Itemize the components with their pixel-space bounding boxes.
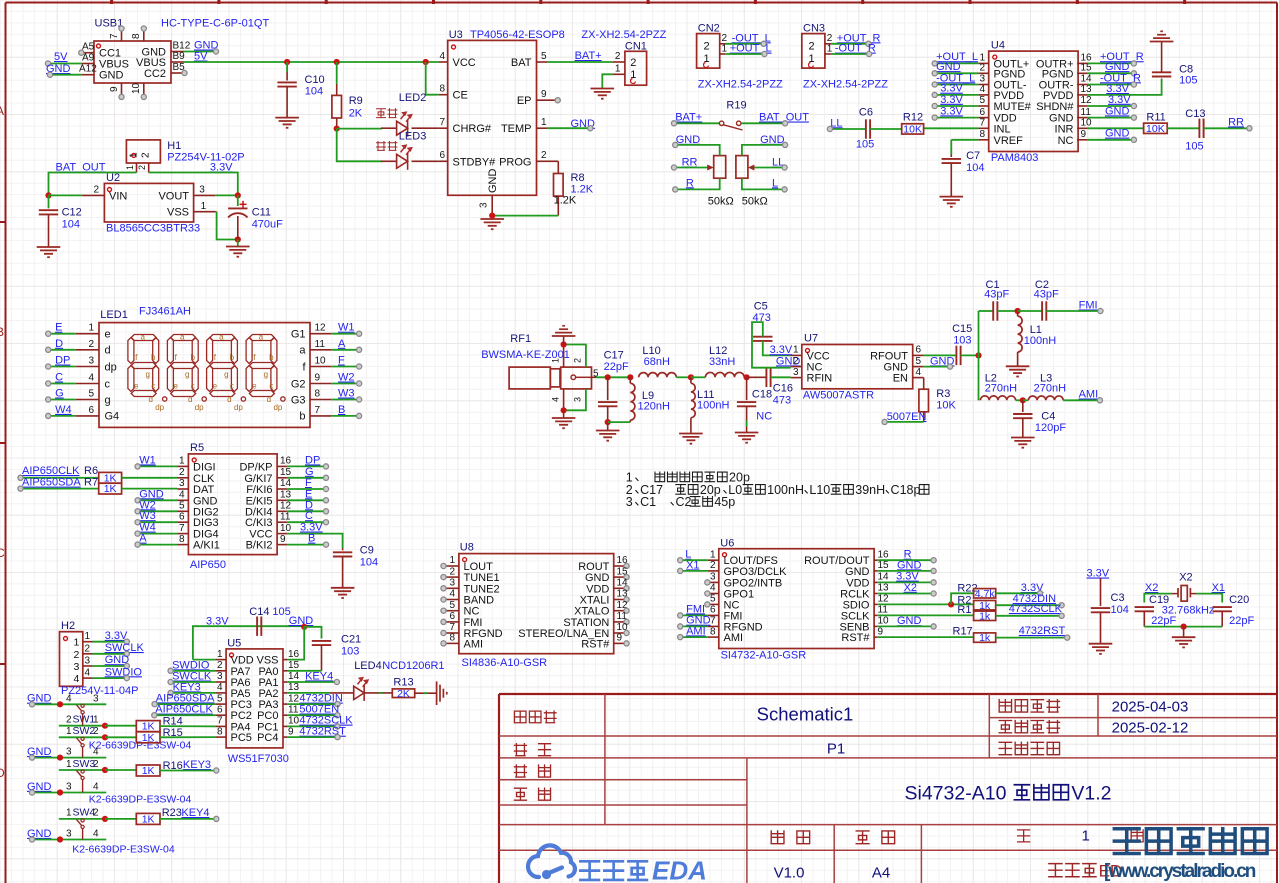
svg-text:B/KI2: B/KI2 [246,540,273,552]
svg-text:7: 7 [710,616,716,627]
USB1 bottom pins 9 10 [121,83,123,97]
wire DP from R5 [287,465,326,467]
wire +OUT_L [726,53,765,55]
wire U3 CE tie to VCC [423,59,429,65]
svg-text:B: B [0,325,4,339]
svg-text:CN3: CN3 [803,23,825,35]
U3 GND pin 3 bottom [491,195,493,215]
RF1 shield pins 1 2 to top ground [563,345,565,368]
svg-text:A: A [139,533,147,545]
LED1 digit 4 [246,335,277,397]
wire 5007EN from U5 pin11 [288,714,338,716]
wire U4 pin13 to C8 [1088,79,1162,95]
svg-text:3.3V: 3.3V [770,344,793,356]
svg-text:4: 4 [93,782,99,793]
svg-text:7: 7 [179,523,185,534]
svg-text:W1: W1 [139,454,156,466]
svg-text:g: g [264,370,268,379]
wire D to LED1 [48,349,76,351]
svg-text:4: 4 [93,747,99,758]
svg-text:103: 103 [341,646,359,658]
title cell label material code [999,742,1059,754]
svg-text:PA7: PA7 [231,666,251,678]
svg-text:R7: R7 [84,477,98,489]
svg-text:6: 6 [179,511,185,522]
svg-text:R9: R9 [349,95,363,107]
wire U4 pin14 [1088,84,1134,86]
wire BAT_OUT from H1 pin1 [49,173,137,196]
U8 pin 2 dot [441,575,446,580]
wire 4732SCLK from U5 pin10 [288,725,338,727]
svg-text:K2-6639DP-E3SW-04: K2-6639DP-E3SW-04 [72,844,175,856]
svg-text:4: 4 [449,589,455,600]
svg-text:1: 1 [827,43,833,54]
svg-text:2: 2 [630,57,636,69]
svg-text:SWDIO: SWDIO [172,659,210,671]
capacitor C7 104 [950,155,952,158]
wire GND to R5 pin4 [138,499,178,501]
title cell label sheet-name [514,711,556,723]
svg-text:SW3: SW3 [73,758,96,770]
svg-text:U3: U3 [449,29,463,41]
svg-text:2: 2 [85,643,91,654]
svg-text:W1: W1 [338,322,355,334]
U8 pin 14 dot [624,586,629,591]
LED2 red charge LED [397,120,408,137]
svg-text:104: 104 [966,162,984,174]
svg-text:C18p: C18p [891,483,921,497]
svg-text:c: c [269,382,273,391]
svg-text:SWDIO: SWDIO [105,666,143,678]
wire R11 to C13 [1167,127,1199,129]
svg-text:GND: GND [845,566,870,578]
svg-text:13: 13 [288,682,300,693]
svg-text:U7: U7 [804,333,818,345]
LED1 digit 2 [167,335,198,397]
junction SDIO R22 [948,601,954,607]
svg-text:LED1: LED1 [100,309,128,321]
wire U5 pin13 to LED4 [288,692,330,694]
svg-text:3: 3 [66,829,72,840]
capacitor C12 104 [48,207,50,209]
U8 pin 16 dot [624,563,629,568]
svg-text:104: 104 [360,557,378,569]
svg-text:4: 4 [66,693,72,704]
svg-text:e: e [173,382,178,391]
U8 pin 8 dot [441,641,446,646]
svg-text:RST#: RST# [581,638,610,650]
junction L2 L3 C4 [1016,399,1023,401]
wire E to LED1 [48,333,76,335]
svg-text:6: 6 [916,345,922,356]
svg-text:C15: C15 [952,323,972,335]
charger U3 TP4056-42-ESOP8 [448,40,537,195]
svg-text:INR: INR [1055,123,1074,135]
svg-text:2: 2 [979,63,985,74]
svg-text:G: G [55,388,64,400]
svg-text:R8: R8 [571,172,585,184]
svg-text:13: 13 [1081,84,1093,95]
svg-text:ZX-XH2.54-2PZZ: ZX-XH2.54-2PZZ [698,78,783,90]
wire C13 to RR dot [1204,127,1250,129]
svg-text:TUNE1: TUNE1 [464,572,500,584]
wire U7 GND pin5 [924,366,950,368]
svg-text:C: C [55,372,63,384]
svg-text:C5: C5 [754,301,768,313]
wire R3 to 5007EN dot [885,421,924,423]
svg-text:1: 1 [74,637,80,649]
svg-text:9: 9 [109,86,120,92]
svg-text:7: 7 [315,405,321,416]
U8 pin 15 dot [624,575,629,580]
junction U3 GND pin3 [489,213,495,219]
svg-text:FJ3461AH: FJ3461AH [139,305,191,317]
wire VREF to C7 [951,139,978,141]
svg-text:1: 1 [201,201,207,212]
svg-text:AMI: AMI [1079,389,1099,401]
svg-text:ZX-XH2.54-2PZZ: ZX-XH2.54-2PZZ [803,78,888,90]
svg-text:SI4732-A10-GSR: SI4732-A10-GSR [721,649,807,661]
wire VOUT to 3.3V node [215,194,238,196]
wire L9 bottom to C17 bottom [608,421,631,423]
svg-text:EP: EP [517,95,532,107]
svg-text:g: g [105,394,111,406]
wire R22 to 3.3V dot [996,592,1040,594]
wire R from U6 pin16 [877,559,933,561]
svg-text:13: 13 [280,490,292,501]
title block outer border [499,694,1277,883]
svg-text:a: a [219,333,224,342]
wire SWDIO H2 [93,677,127,679]
ground under L1 [1006,366,1030,376]
svg-text:DP: DP [55,355,70,367]
svg-text:PA2: PA2 [259,688,279,700]
radio U8 SI4836-A10-GSR [459,554,614,654]
svg-text:4: 4 [440,51,446,62]
svg-text:120nH: 120nH [638,401,670,413]
wire U3 TEMP to GND dot [547,127,590,129]
wire SWCLK to U5 pin3 [171,681,216,683]
junction antenna node at L9 [627,374,633,380]
svg-text:4: 4 [551,397,561,402]
wire L3 to AMI dot [1063,399,1100,401]
ground under C3 [1089,644,1113,654]
svg-text:1: 1 [217,649,223,660]
resistor R9 2K [336,62,338,84]
ground at CN1 [591,89,615,99]
svg-text:L10: L10 [809,483,830,497]
svg-text:G3: G3 [291,394,306,406]
wire C5 top loop to GND pin2 of U7 [752,322,791,368]
wire R23 to KEY4 dot [160,818,216,820]
svg-text:c: c [151,382,155,391]
wire U4 pin2 [935,72,979,74]
svg-text:2: 2 [704,41,710,53]
svg-text:5: 5 [979,95,985,106]
svg-text:B12: B12 [173,40,191,51]
svg-text:AMI: AMI [686,625,706,637]
svg-text:270nH: 270nH [985,383,1017,395]
svg-text:a: a [180,333,185,342]
wire LED4 to R13 [365,692,392,694]
svg-text:5: 5 [179,501,185,512]
svg-text:b: b [299,411,305,423]
svg-text:3: 3 [66,782,72,793]
svg-text:3.3V: 3.3V [896,571,919,583]
wire R7 to R5 pin3 [122,488,178,490]
RF1 shield pins 4 3 to bottom ground [563,389,565,410]
wire C to LED1 [48,383,76,385]
wire U4 pin12 [1088,105,1134,107]
wire W2 from LED1 [331,383,359,385]
svg-text:VOUT: VOUT [158,190,189,202]
wire SWCLK H2 [93,653,127,655]
svg-text:Schematic1: Schematic1 [757,704,854,725]
svg-text:A4: A4 [872,865,890,882]
wire L to U6 pin1 [680,559,708,561]
svg-text:PA0: PA0 [259,666,279,678]
svg-text:dp: dp [195,403,204,412]
wire LED node down to STDBY# LED [337,129,382,162]
U8 pin 1 dot [441,563,446,568]
svg-text:R5: R5 [190,442,204,454]
svg-text:8: 8 [979,129,985,140]
svg-text:C1: C1 [640,495,656,509]
svg-text:R11: R11 [1146,112,1165,124]
wire R16 to KEY3 dot [160,770,216,772]
svg-text:3: 3 [793,367,799,378]
svg-text:EDA: EDA [652,856,707,883]
wire BAT+ to R19 [674,122,720,124]
svg-text:5: 5 [88,389,94,400]
svg-text:g: g [185,370,189,379]
svg-text:100nH: 100nH [767,483,804,497]
wire C2 to FMI dot [1046,310,1100,312]
svg-text:RST#: RST# [841,632,870,644]
wire AIP650CLK to U5 pin6 [154,714,215,716]
svg-text:3: 3 [573,397,583,402]
svg-text:V1.2: V1.2 [1071,783,1111,805]
svg-text:PGND: PGND [1042,68,1074,80]
svg-text:MUTE#: MUTE# [994,101,1032,113]
svg-text:1K: 1K [104,483,117,495]
svg-text:105: 105 [856,138,874,150]
wire LED node to CHRG# [337,128,382,130]
wire X1 to U6 pin2 [680,570,708,572]
svg-text:X2: X2 [904,582,917,594]
svg-text:b: b [269,353,274,362]
svg-text:GND: GND [1105,61,1130,73]
svg-text:4732SCLK: 4732SCLK [1009,603,1063,615]
svg-text:4: 4 [85,668,91,679]
wire G from R5 [287,477,326,479]
wire C16 to U7 RFIN [771,376,791,378]
wire GND USB1 B12 [184,51,217,53]
ground below RF1 [552,418,576,428]
label red color [377,109,397,118]
U8 pin 4 dot [441,597,446,602]
title hidden total page [1131,830,1143,842]
svg-text:5: 5 [449,600,455,611]
U3 EP pin dot [555,98,560,103]
svg-text:R23: R23 [162,807,182,819]
svg-text:d: d [188,395,192,404]
wire R2 to 4732DIN dot [996,604,1062,606]
svg-text:RFOUT: RFOUT [870,350,908,362]
svg-text:103: 103 [953,335,971,347]
frame row ticks and letters [0,222,6,664]
svg-text:1: 1 [129,152,140,158]
wire GND from U6 pin15 [877,570,933,572]
svg-text:39nH: 39nH [855,483,885,497]
svg-text:1: 1 [551,358,561,363]
svg-text:K2-6639DP-E3SW-04: K2-6639DP-E3SW-04 [89,794,192,806]
svg-text:K2-6639DP-E3SW-04: K2-6639DP-E3SW-04 [89,740,192,752]
svg-text:5V: 5V [194,51,208,63]
U8 pin 10 dot [624,630,629,635]
svg-text:C17: C17 [604,350,624,362]
svg-text:R12: R12 [903,112,923,124]
svg-text:15: 15 [878,560,890,571]
title block grid lines [499,694,1277,883]
svg-text:R6: R6 [84,465,98,477]
svg-text:DP/KP: DP/KP [239,461,272,473]
svg-text:3: 3 [217,671,223,682]
svg-text:AMI: AMI [724,632,744,644]
watermark crystalradio site name [1114,829,1267,854]
svg-text:11: 11 [288,704,299,715]
svg-text:8: 8 [449,633,455,644]
svg-text:16: 16 [288,649,300,660]
svg-text:XTALO: XTALO [574,606,610,618]
ground under C4 [1011,438,1035,448]
svg-text:c: c [191,382,195,391]
svg-text:D: D [55,338,63,350]
svg-text:43pF: 43pF [984,289,1009,301]
svg-text:e: e [105,329,111,341]
wire U4 pin1 [935,62,979,64]
svg-text:KEY4: KEY4 [305,670,333,682]
svg-text:W4: W4 [55,404,72,416]
svg-text:BAT+: BAT+ [575,50,602,62]
wire G to LED1 [48,399,76,401]
svg-text:2025-02-12: 2025-02-12 [1112,720,1189,737]
wire 4732DIN from U5 pin12 [288,703,338,705]
svg-text:2: 2 [74,649,80,661]
svg-text:C21: C21 [341,634,361,646]
svg-text:X1: X1 [1212,582,1225,594]
svg-text:4: 4 [179,490,185,501]
svg-text:L: L [772,177,778,189]
junction L1 top [1015,308,1021,314]
svg-text:4: 4 [93,829,99,840]
svg-text:12: 12 [1081,95,1093,106]
svg-text:PC0: PC0 [257,710,278,722]
wire GND H2 [93,665,127,667]
svg-text:e: e [134,382,139,391]
ground under C17 [596,431,620,441]
svg-text:F: F [338,355,345,367]
junction L11 top [688,374,694,380]
title cell label page-number [1018,830,1030,842]
wire C1 to L1 node [997,310,1017,312]
svg-text:d: d [105,345,111,357]
svg-text:3: 3 [93,693,99,704]
svg-text:104: 104 [62,219,80,231]
frame column ticks [112,0,1185,4]
svg-text:d: d [227,395,231,404]
svg-text:NCD1206R1: NCD1206R1 [382,660,444,672]
svg-text:V1.0: V1.0 [774,865,805,882]
svg-text:6: 6 [217,704,223,715]
svg-text:3.3V: 3.3V [940,94,963,106]
svg-text:GND: GND [1105,105,1130,117]
svg-text:R1: R1 [957,604,971,616]
wire KEY4 from U5 pin14 [288,681,337,683]
svg-text:AMI: AMI [464,638,484,650]
capacitor C9 104 [342,548,344,550]
svg-text:FMI: FMI [1079,300,1098,312]
svg-text:PA5: PA5 [231,688,251,700]
wire W4 to LED1 [48,415,76,417]
svg-text:105: 105 [1179,75,1197,87]
svg-text:C: C [0,546,5,560]
svg-text:2: 2 [449,566,455,577]
wire C6 to R12 [870,128,902,130]
svg-text:PC5: PC5 [231,732,252,744]
LED3 green LED [397,153,408,170]
svg-text:C20: C20 [1229,594,1249,606]
wire U4 pin6 [935,117,979,119]
svg-text:c: c [105,378,111,390]
svg-text:16: 16 [280,456,292,467]
junction 5V at R9 [334,59,340,65]
svg-text:10K: 10K [903,124,922,136]
wire 5V to USB1 A9 [48,63,81,65]
wire AIP650SDA to U5 pin5 [155,703,216,705]
svg-text:VDD: VDD [231,655,254,667]
svg-text:2025-04-03: 2025-04-03 [1112,699,1189,716]
svg-text:PZ254V-11-02P: PZ254V-11-02P [167,152,244,164]
svg-text:c: c [230,382,234,391]
svg-text:R19: R19 [726,100,746,112]
svg-text:C: C [305,510,313,522]
svg-text:EN: EN [893,373,908,385]
U6 pin5 dot [705,602,710,607]
svg-text:1: 1 [710,549,716,560]
svg-text:LED3: LED3 [399,130,427,142]
svg-text:F: F [305,477,312,489]
svg-text:2: 2 [141,152,152,158]
wire RST from U6 pin9 [877,636,973,638]
svg-text:16: 16 [878,549,890,560]
svg-text:120pF: 120pF [1035,422,1066,434]
svg-text:2: 2 [217,660,223,671]
svg-text:10K: 10K [936,400,956,412]
ground under C7 [940,197,964,207]
svg-text:Si4732-A10: Si4732-A10 [905,783,1007,805]
svg-text:100nH: 100nH [1024,335,1056,347]
svg-text:C10: C10 [305,74,325,86]
svg-text:GND: GND [936,61,961,73]
svg-text:105: 105 [1185,141,1203,153]
svg-text:GND: GND [897,615,922,627]
svg-text:1: 1 [66,759,72,770]
svg-text:[www.crystalradio.cn: [www.crystalradio.cn [1104,861,1256,882]
svg-text:1k: 1k [979,610,991,622]
wire AMI to U6 pin8 [680,636,708,638]
logo JLCEDA text [580,861,647,880]
